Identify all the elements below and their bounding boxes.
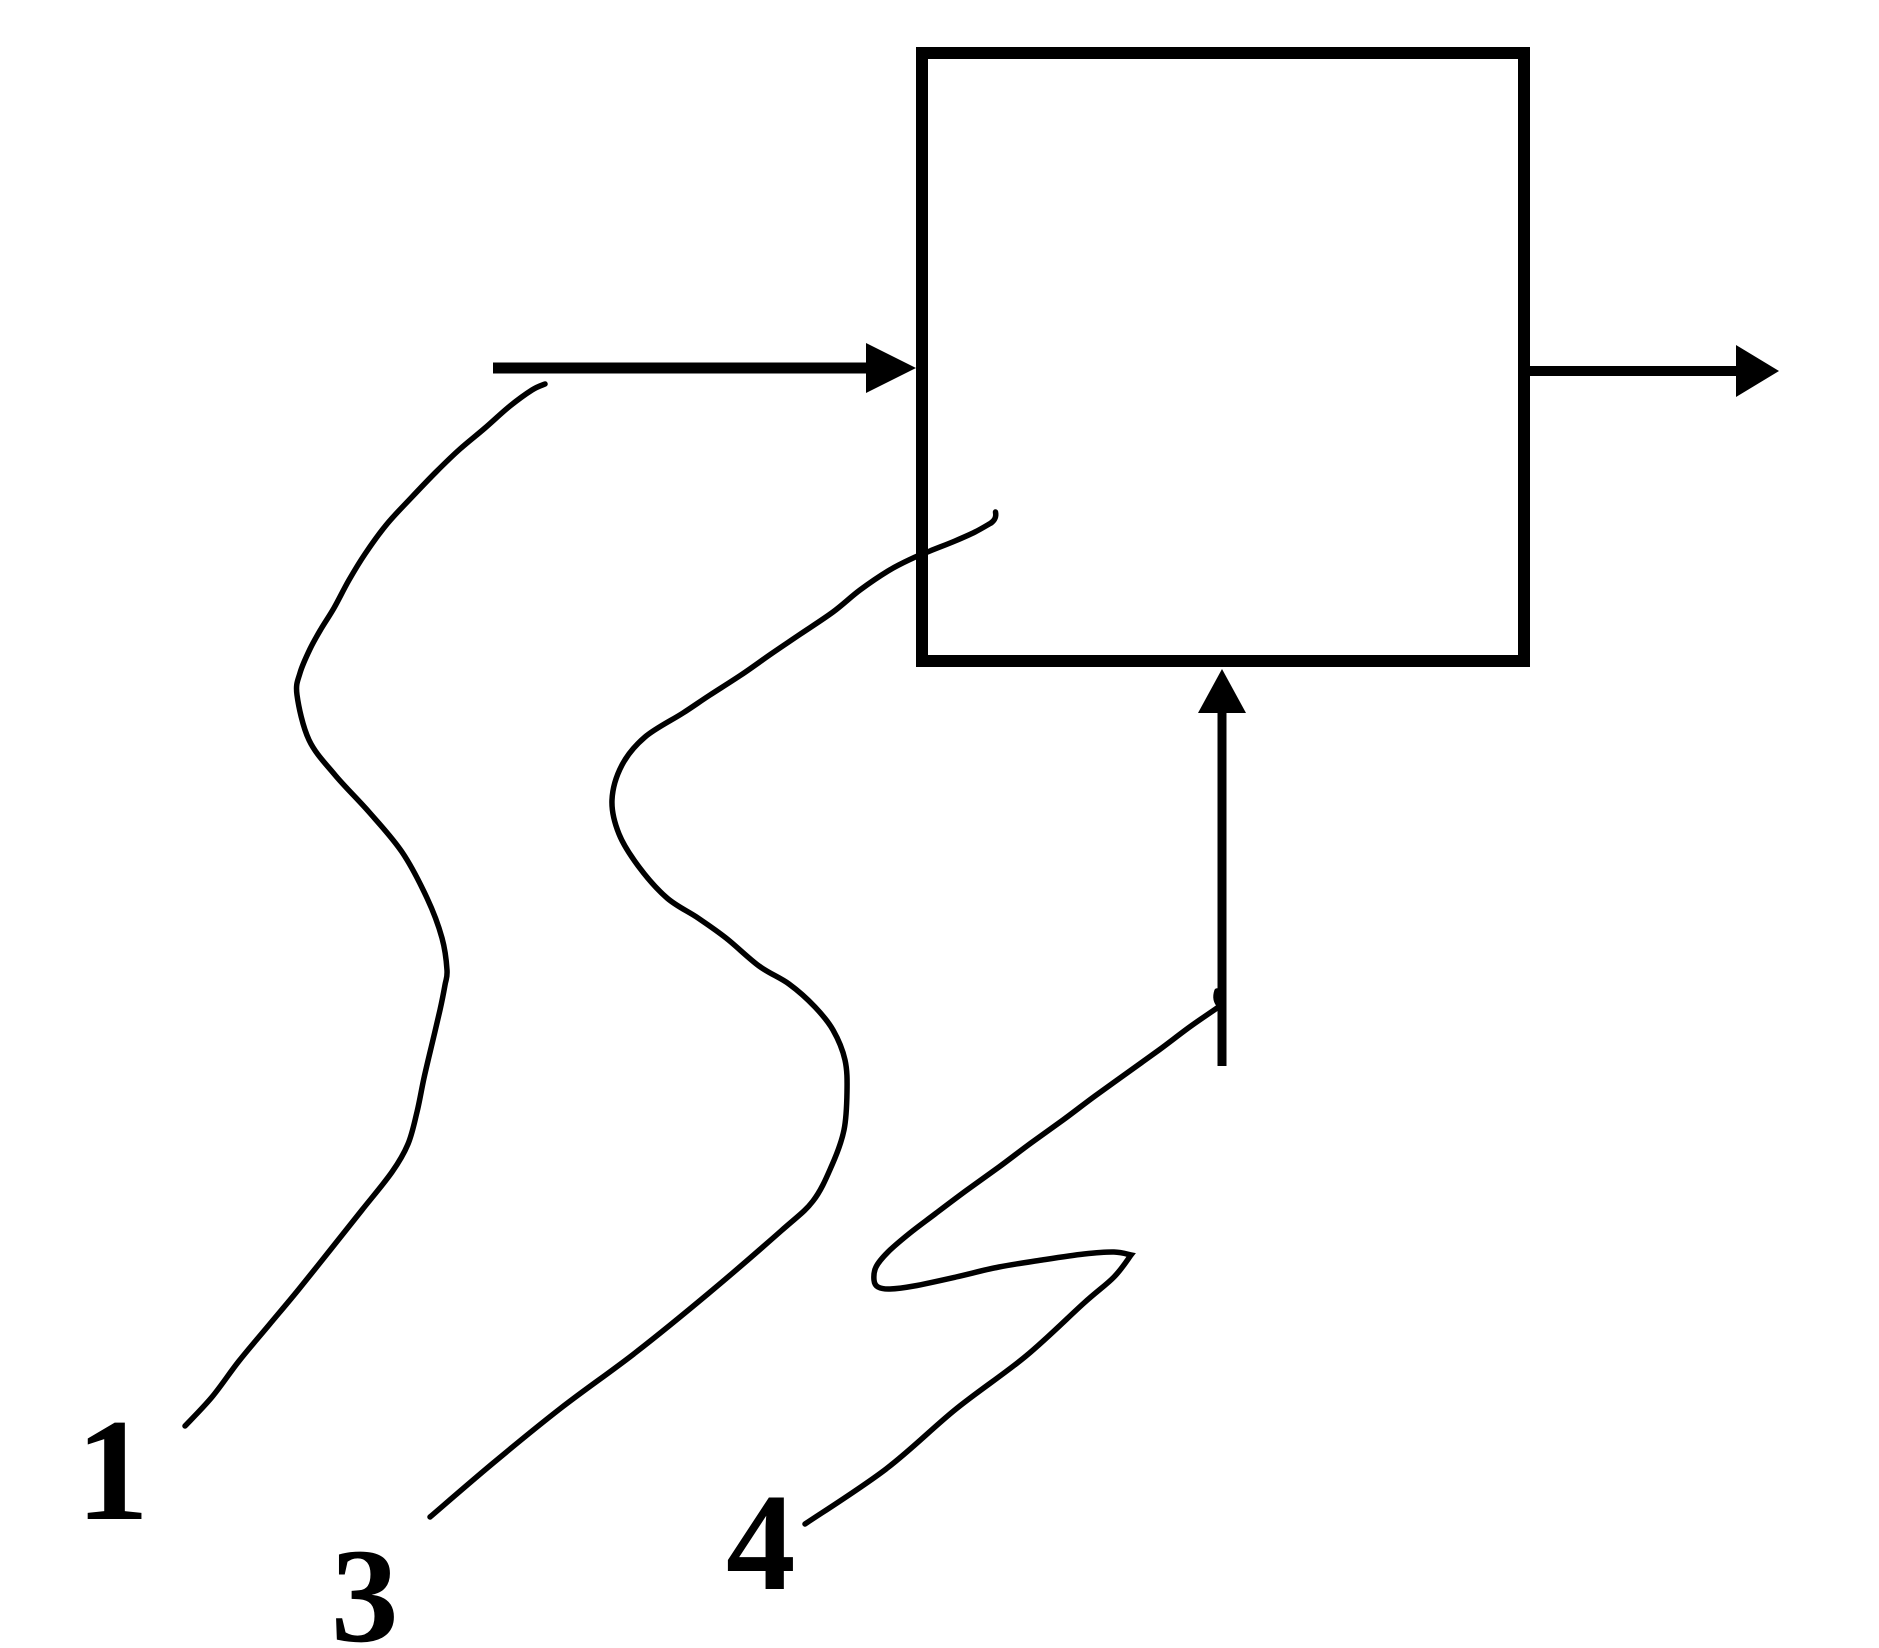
block 2 (process box) [922, 53, 1524, 661]
wire output arrow shaft [1530, 366, 1740, 376]
bottom input arrowhead [1198, 669, 1246, 713]
leader 4 tip hook [1216, 991, 1220, 1006]
wire input arrow shaft [493, 363, 870, 374]
wire bottom input arrow shaft [1218, 707, 1227, 1066]
svg-text:4: 4 [726, 1466, 796, 1620]
svg-text:3: 3 [331, 1522, 399, 1648]
leader line for label 4 [805, 1006, 1220, 1524]
svg-text:1: 1 [76, 1389, 149, 1551]
leader 3 tip hook [991, 512, 996, 523]
leader line for label 1 [185, 384, 545, 1426]
input arrowhead [866, 343, 916, 393]
output arrowhead [1736, 345, 1779, 397]
leader line for label 3 [430, 523, 991, 1517]
